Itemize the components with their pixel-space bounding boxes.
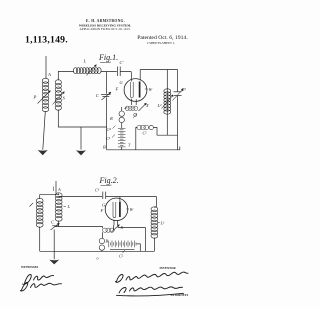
svg-text:A: A bbox=[47, 72, 51, 77]
svg-text:W: W bbox=[149, 87, 153, 92]
svg-text:F: F bbox=[115, 87, 119, 92]
svg-text:L: L bbox=[83, 59, 87, 64]
svg-text:C⁵: C⁵ bbox=[119, 254, 124, 259]
svg-text:INVENTOR: INVENTOR bbox=[160, 266, 177, 270]
svg-text:2 SHEETS-SHEET 1.: 2 SHEETS-SHEET 1. bbox=[147, 41, 175, 45]
svg-text:L: L bbox=[67, 204, 71, 209]
svg-text:L¹: L¹ bbox=[160, 221, 166, 226]
svg-text:Cʹ: Cʹ bbox=[120, 60, 124, 65]
svg-text:B: B bbox=[106, 239, 109, 244]
svg-text:Fig.1.: Fig.1. bbox=[98, 53, 118, 62]
svg-text:C: C bbox=[51, 220, 54, 225]
svg-text:X: X bbox=[145, 103, 149, 108]
svg-text:WITNESSES: WITNESSES bbox=[21, 265, 39, 269]
svg-text:1,113,149.: 1,113,149. bbox=[25, 34, 68, 45]
svg-text:C⁵: C⁵ bbox=[143, 131, 148, 136]
svg-text:W: W bbox=[130, 207, 134, 212]
svg-text:C²: C² bbox=[182, 87, 187, 92]
svg-text:X: X bbox=[120, 225, 124, 230]
svg-text:o: o bbox=[97, 256, 99, 261]
svg-text:B: B bbox=[103, 145, 106, 150]
svg-text:C⁴: C⁴ bbox=[107, 127, 112, 132]
svg-text:L²: L² bbox=[157, 103, 163, 108]
svg-text:R: R bbox=[109, 116, 113, 121]
svg-text:C⁶: C⁶ bbox=[95, 188, 100, 193]
svg-text:Fig.2.: Fig.2. bbox=[99, 176, 119, 185]
svg-text:E. H. ARMSTRONG.: E. H. ARMSTRONG. bbox=[86, 19, 125, 23]
svg-text:P: P bbox=[33, 95, 37, 100]
svg-text:A: A bbox=[57, 187, 61, 192]
svg-text:F: F bbox=[100, 208, 104, 213]
